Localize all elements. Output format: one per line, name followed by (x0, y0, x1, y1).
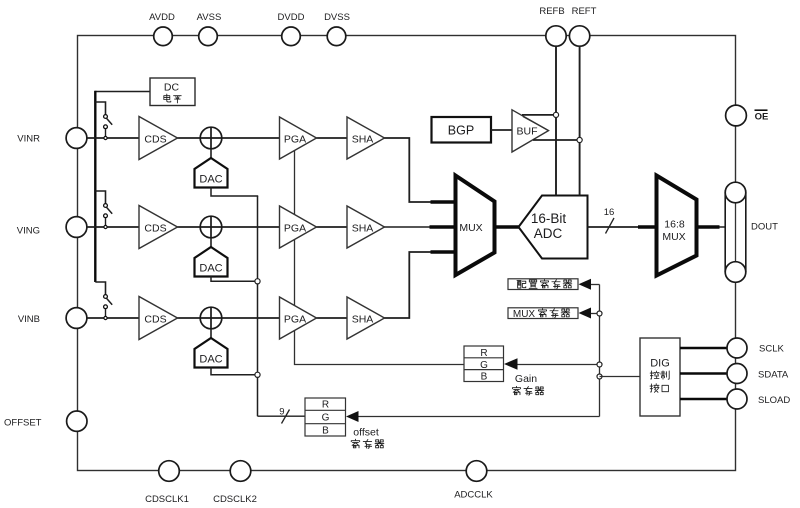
svg-text:DIG: DIG (650, 358, 670, 370)
svg-text:AVSS: AVSS (197, 12, 222, 23)
svg-text:PGA: PGA (284, 134, 306, 146)
wire outer frame (78, 36, 736, 471)
svg-text:VING: VING (17, 226, 40, 237)
pin SDATA (727, 364, 747, 384)
bus width slash 16 (606, 218, 615, 234)
wire offset bus with 9 slash (258, 415, 306, 417)
pin REFB (546, 26, 566, 46)
svg-text:OE: OE (755, 112, 769, 123)
svg-text:SDATA: SDATA (758, 370, 789, 381)
wire sum to DAC G (210, 238, 212, 247)
pin CDSCLK2 (230, 461, 251, 482)
MUX input stub B (431, 250, 457, 253)
wire ADC output bus (588, 226, 639, 228)
svg-text:REFB: REFB (539, 6, 564, 17)
block PGA G (280, 206, 317, 248)
arrow into Gain register (504, 358, 518, 369)
svg-text:Gain: Gain (515, 373, 537, 385)
wire control bus vertical (599, 285, 601, 417)
wire 16:8 MUX output (697, 225, 720, 228)
svg-text:OFFSET: OFFSET (4, 417, 42, 428)
svg-text:G: G (322, 413, 330, 424)
wire DAC bus vertical (257, 196, 259, 416)
junction dot DAC-B (255, 372, 260, 377)
svg-text:B: B (322, 426, 329, 437)
svg-text:BUF: BUF (517, 125, 538, 137)
switch SB (95, 282, 105, 295)
svg-text:MUX: MUX (662, 231, 685, 243)
junction dot BUF-REFB (553, 112, 558, 117)
svg-text:SLOAD: SLOAD (758, 395, 790, 406)
svg-text:DVDD: DVDD (278, 12, 305, 23)
wire switch bus vertical (94, 91, 96, 282)
svg-text:AVDD: AVDD (149, 12, 175, 23)
wire REFT vertical (579, 46, 581, 196)
wire REFB vertical (555, 46, 557, 196)
MUX input stub R (431, 200, 457, 203)
svg-text:MUX: MUX (513, 309, 536, 320)
arrow into offset register (346, 411, 359, 422)
wire DAC B output (211, 367, 258, 375)
wire BUF bottom output to REFT (533, 139, 580, 141)
svg-text:SHA: SHA (352, 134, 374, 146)
svg-text:16:8: 16:8 (664, 219, 685, 231)
pin AVSS (199, 27, 218, 46)
svg-text:DVSS: DVSS (324, 12, 350, 23)
pin OFFSET (67, 411, 87, 431)
block DAC R (195, 158, 228, 188)
svg-text:DAC: DAC (199, 353, 222, 365)
svg-text:DOUT: DOUT (751, 222, 778, 233)
wire BGP to BUF (491, 129, 512, 131)
pin VING (66, 217, 87, 238)
summing node B (200, 307, 222, 329)
block DC level (150, 78, 195, 106)
block PGA B (280, 297, 317, 339)
svg-text:SHA: SHA (352, 314, 374, 326)
pin CDSCLK1 (159, 461, 180, 482)
junction dot ctrl-DIG (597, 374, 602, 379)
register block Gain RGB (464, 346, 504, 382)
junction dot ctrl-MUXreg (597, 311, 602, 316)
wire DC-level to switch bus (95, 91, 150, 93)
svg-text:R: R (322, 400, 329, 411)
svg-text:REFT: REFT (572, 6, 597, 17)
mux U3 16:8 MUX (657, 176, 697, 276)
wire MUX to ADC (495, 225, 520, 228)
junction dot DAC-G (255, 279, 260, 284)
pin VINR (66, 128, 87, 149)
junction dot BUF-REFT (577, 137, 582, 142)
register block config 配置寄存器 (508, 279, 578, 290)
block SHA R (347, 117, 385, 159)
wire VING row (87, 226, 347, 228)
svg-text:CDSCLK1: CDSCLK1 (145, 494, 189, 505)
adc U2 16-Bit ADC (519, 196, 588, 259)
wire DAC G output (211, 276, 258, 281)
mux U1 MUX (456, 176, 495, 276)
svg-text:9: 9 (279, 407, 284, 418)
block DAC G (195, 247, 228, 277)
switch SG (95, 191, 105, 204)
svg-text:G: G (480, 360, 488, 371)
wire BUF top output to REFB (522, 114, 556, 116)
summing node G (200, 216, 222, 238)
pin REFT (569, 26, 589, 46)
block DIG control interface (640, 338, 680, 416)
svg-text:VINB: VINB (18, 314, 40, 325)
wire DAC R output (211, 187, 258, 196)
svg-text:16: 16 (604, 207, 615, 218)
wire DIG to SCLK (680, 347, 728, 349)
pin SCLK (727, 338, 747, 358)
svg-text:DC: DC (164, 82, 180, 94)
svg-text:B: B (481, 371, 488, 382)
svg-text:CDSCLK2: CDSCLK2 (213, 494, 257, 505)
svg-text:offset: offset (353, 427, 379, 439)
pin DVSS (327, 27, 346, 46)
wire ctrl to DIG (600, 376, 641, 378)
svg-text:VINR: VINR (17, 134, 40, 145)
switch SR (95, 102, 105, 115)
pin SLOAD (727, 389, 747, 409)
pin DVDD (282, 27, 301, 46)
block CDS R (139, 117, 178, 160)
wire SHA-R to MUX (385, 138, 432, 202)
svg-text:MUX: MUX (459, 222, 482, 234)
block SHA B (347, 297, 385, 339)
pin DOUT capsule (725, 182, 746, 282)
block BGP (432, 117, 492, 143)
junction dot ctrl-gain (597, 362, 602, 367)
wire DIG to SLOAD (680, 398, 728, 400)
block PGA R (280, 117, 317, 159)
svg-text:DAC: DAC (199, 262, 222, 274)
pin ADCCLK (466, 461, 487, 482)
svg-text:CDS: CDS (144, 134, 166, 146)
block CDS B (139, 297, 178, 340)
svg-text:16-Bit: 16-Bit (531, 211, 567, 226)
svg-text:CDS: CDS (144, 314, 166, 326)
svg-text:SHA: SHA (352, 223, 374, 235)
pin VINB (66, 308, 87, 329)
buffer BUF (512, 110, 549, 152)
wire gain control vertical (295, 146, 465, 365)
arrow into config register (579, 279, 592, 290)
wire sum to DAC R (210, 149, 212, 158)
MUX input stub G (430, 225, 457, 228)
svg-text:DAC: DAC (199, 173, 222, 185)
block DAC B (195, 338, 228, 368)
block CDS G (139, 206, 178, 249)
register block MUX寄存器 (508, 308, 578, 319)
register block offset RGB (305, 398, 346, 436)
svg-text:ADCCLK: ADCCLK (454, 490, 493, 501)
block SHA G (347, 206, 385, 248)
wire thick stub into 16:8 MUX (638, 225, 657, 228)
summing node R (200, 127, 222, 149)
wire VINB row (87, 317, 347, 319)
pin AVDD (154, 27, 173, 46)
svg-text:R: R (480, 348, 487, 359)
wire SHA-B to MUX (385, 252, 432, 318)
wire VINR row (87, 137, 347, 139)
svg-text:ADC: ADC (534, 226, 563, 241)
svg-text:SCLK: SCLK (759, 344, 784, 355)
wire SHA-G to MUX (385, 226, 431, 228)
wire sum to DAC B (210, 329, 212, 338)
svg-text:PGA: PGA (284, 314, 306, 326)
arrow into MUX register (579, 308, 592, 319)
wire DIG to SDATA (680, 372, 728, 374)
svg-text:PGA: PGA (284, 223, 306, 235)
pin OE (active low) (726, 105, 747, 126)
svg-text:BGP: BGP (448, 124, 474, 138)
svg-text:CDS: CDS (144, 223, 166, 235)
